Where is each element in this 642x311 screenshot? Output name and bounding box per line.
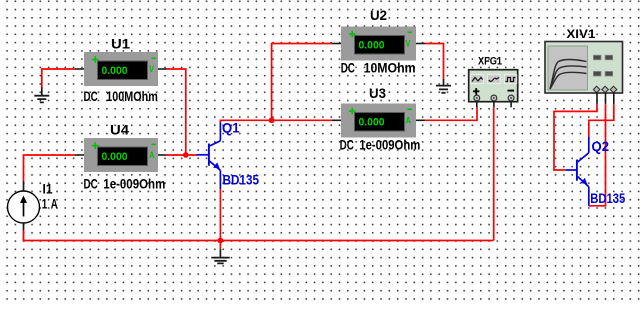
transistor Q1 <box>197 123 221 190</box>
multimeter U3 <box>341 104 416 138</box>
svg-text:1: 1 <box>42 196 48 212</box>
wire U3 right to XFG1 plus <box>425 107 477 120</box>
value label DC 1e-009Ohm (U3) <box>340 137 421 153</box>
svg-text:I1: I1 <box>43 181 53 197</box>
pin stub XFG1 common <box>493 101 495 107</box>
svg-text:U2: U2 <box>370 7 387 23</box>
wire U1 left to ground <box>42 69 75 87</box>
pin stub U4 right <box>158 154 167 156</box>
svg-text:A: A <box>406 116 412 126</box>
wire node C to U3 left <box>272 119 332 121</box>
IV analyzer XIV1 <box>545 42 623 94</box>
pin stub U2 left <box>332 43 341 45</box>
wire U2 right to ground <box>425 44 444 79</box>
node C junction <box>269 117 275 123</box>
multimeter U2 <box>341 27 416 61</box>
ground (U1) <box>34 87 49 102</box>
pin stub XFG1 minus <box>510 101 512 107</box>
wire Q1 collector up and right to node C <box>220 120 271 122</box>
svg-text:100MOhm: 100MOhm <box>106 88 158 104</box>
pin stub U1 right <box>158 68 167 70</box>
svg-text:DC: DC <box>341 60 355 76</box>
pin stub U2 right <box>416 43 425 45</box>
wire I1 bottom to rail <box>24 231 494 241</box>
svg-text:Q2: Q2 <box>592 138 610 154</box>
svg-text:A: A <box>149 150 155 160</box>
pin stub U3 right <box>416 119 425 121</box>
svg-text:BD135: BD135 <box>223 171 260 187</box>
node B junction <box>183 152 189 158</box>
wire U1 right down to node B <box>167 69 186 155</box>
svg-text:10MOhm: 10MOhm <box>364 60 416 76</box>
svg-text:0.000: 0.000 <box>359 39 385 51</box>
multimeter U1 <box>84 52 158 86</box>
svg-text:DC: DC <box>84 176 98 192</box>
current source I1 <box>8 181 40 231</box>
transistor Q2 <box>566 137 589 206</box>
pin stub U3 left <box>332 119 341 121</box>
svg-text:0.000: 0.000 <box>359 116 385 128</box>
wire XFG1 common down to rail <box>493 107 495 240</box>
wire Q1 emitter down to rail <box>219 189 221 249</box>
svg-text:V: V <box>406 39 411 49</box>
multimeter U4 <box>84 138 158 172</box>
pin stub XIV1 base <box>596 92 598 104</box>
svg-text:Q1: Q1 <box>222 120 240 136</box>
wire XIV1 base pin to Q2 base <box>554 104 597 170</box>
svg-text:0.000: 0.000 <box>102 151 128 163</box>
pin stub U1 left <box>75 68 84 70</box>
wire XIV1 emitter pin to Q2 emitter <box>589 104 606 206</box>
wire XIV1 collector pin to Q2 collector <box>589 104 614 137</box>
pin stub XFG1 plus <box>476 101 478 107</box>
svg-text:DC: DC <box>84 88 98 104</box>
svg-text:A: A <box>51 196 58 212</box>
svg-text:DC: DC <box>340 137 354 153</box>
svg-text:XFG1: XFG1 <box>478 55 502 67</box>
ground (rail) <box>211 249 229 263</box>
svg-text:XIV1: XIV1 <box>566 27 595 41</box>
rail junction <box>218 238 224 244</box>
value label DC 100MOhm (U1) <box>84 88 158 104</box>
value label DC 1e-009Ohm (U4) <box>84 176 166 192</box>
svg-text:U3: U3 <box>369 85 386 101</box>
svg-text:BD135: BD135 <box>590 190 625 206</box>
svg-text:V: V <box>149 64 154 74</box>
svg-text:0.000: 0.000 <box>102 65 128 77</box>
svg-text:1e-009Ohm: 1e-009Ohm <box>103 176 165 192</box>
svg-text:U1: U1 <box>111 36 130 52</box>
svg-text:U4: U4 <box>110 122 129 138</box>
wire U4 right to Q1 base <box>167 154 197 156</box>
pin stub U4 left <box>75 154 84 156</box>
wire node C up to U2 left <box>272 44 332 121</box>
svg-text:1e-009Ohm: 1e-009Ohm <box>359 137 420 153</box>
pin stub XIV1 emitter <box>605 92 607 104</box>
function generator XFG1 <box>469 70 518 102</box>
value label DC 10MOhm (U2) <box>341 60 416 76</box>
wire U4 left to I1 <box>24 155 76 181</box>
pin stub XIV1 collector <box>613 92 615 104</box>
ground (U2) <box>436 78 451 93</box>
